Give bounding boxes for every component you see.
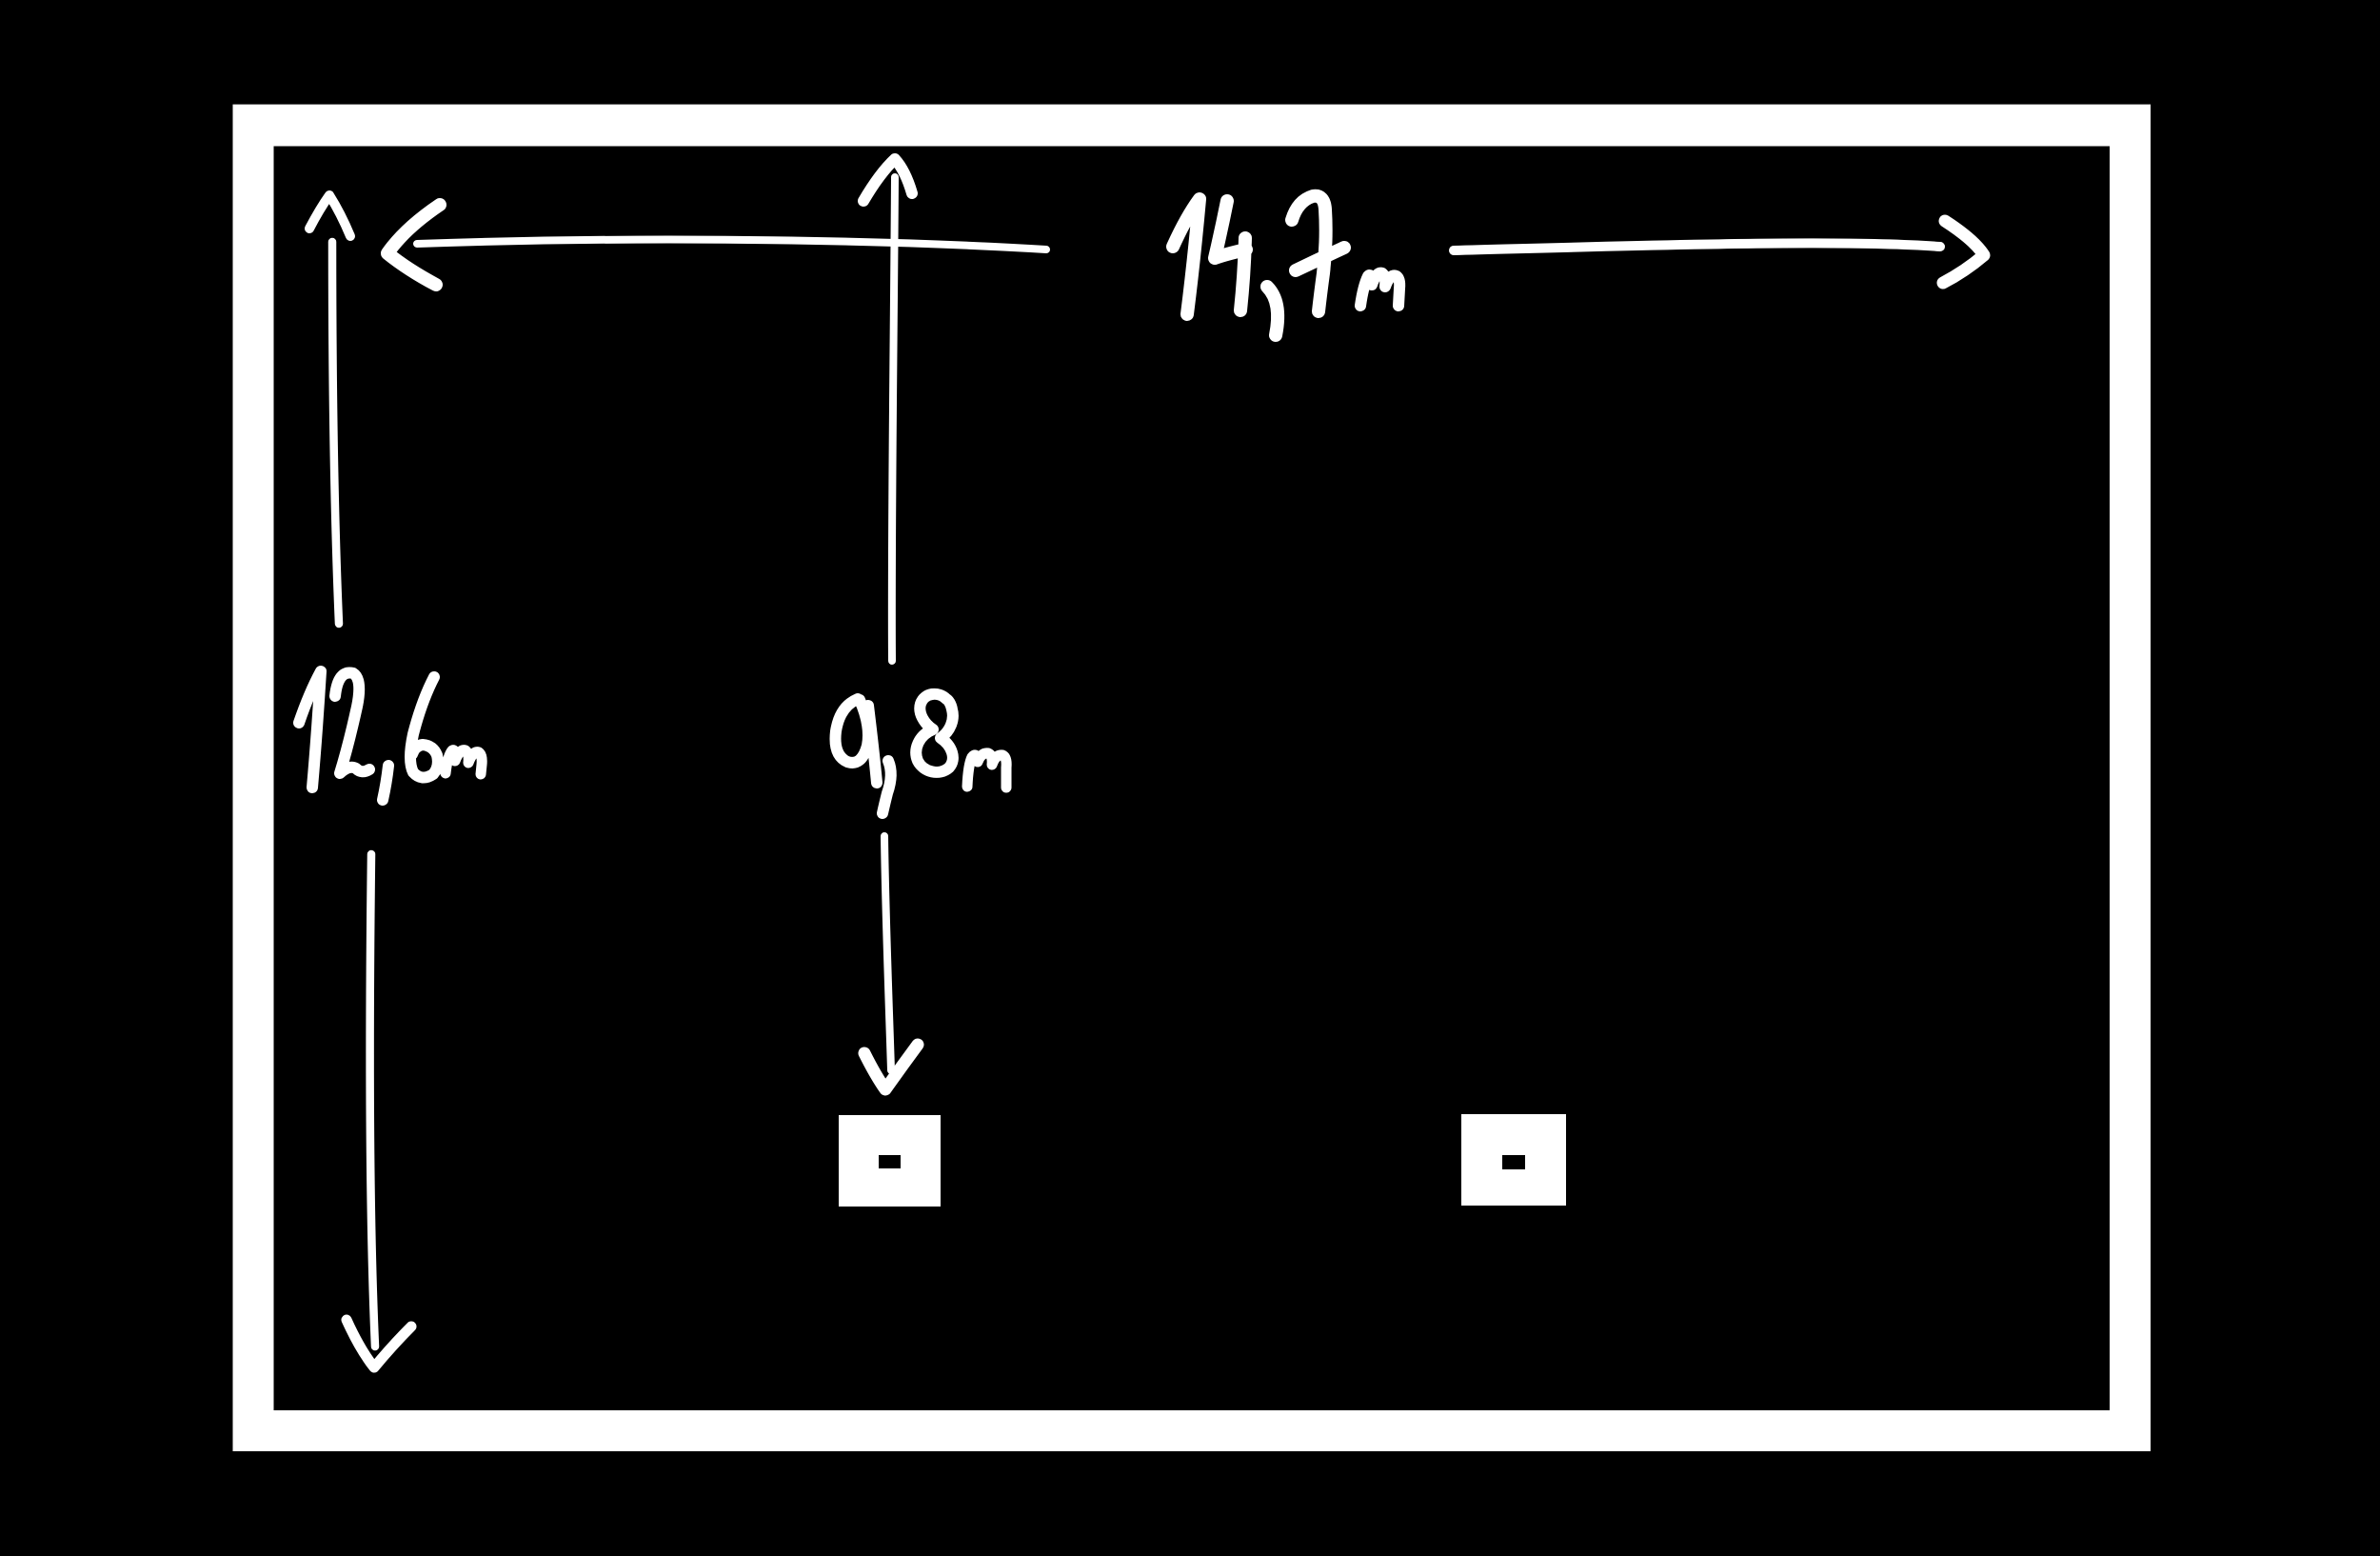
comma xyxy=(383,766,388,800)
dimension 14,7m : horizontal double arrow at top xyxy=(387,205,1984,285)
lower line xyxy=(884,836,891,1070)
digit 1 xyxy=(1173,199,1200,314)
pillar P2 (right white square) xyxy=(1461,1114,1566,1206)
unit m xyxy=(446,750,482,774)
top arrowhead xyxy=(309,195,350,236)
bottom arrowhead xyxy=(347,1320,411,1367)
room outline (thick white border rectangle) xyxy=(233,105,2152,1451)
digit 4 xyxy=(1215,201,1246,310)
label 12,6m xyxy=(299,671,482,800)
label 14,7m xyxy=(1173,196,1399,335)
dimension 12,6m : vertical double arrow at left xyxy=(309,195,411,1367)
unit m xyxy=(1360,273,1399,306)
right arrowhead xyxy=(1943,221,1984,283)
unit m xyxy=(967,753,1006,788)
left arrowhead xyxy=(387,205,440,285)
label 9,8m xyxy=(836,694,1007,813)
bottom arrowhead xyxy=(864,1045,918,1089)
digit 6 xyxy=(410,677,438,778)
digit 8 xyxy=(916,694,953,772)
right segment xyxy=(1454,243,1940,250)
upper line xyxy=(892,177,895,661)
left segment xyxy=(417,240,1046,249)
lower line xyxy=(370,854,375,1347)
upper line xyxy=(332,242,339,624)
top arrowhead xyxy=(863,159,912,201)
digit 1 xyxy=(299,671,321,788)
digit 2 xyxy=(335,673,369,774)
pillar P1 (left white square) xyxy=(839,1115,941,1207)
comma xyxy=(883,761,891,813)
comma xyxy=(1267,287,1278,335)
digit 9 xyxy=(836,699,878,783)
digit 7 xyxy=(1292,196,1344,311)
dimension 9,8m : vertical arrow centre xyxy=(863,159,918,1089)
